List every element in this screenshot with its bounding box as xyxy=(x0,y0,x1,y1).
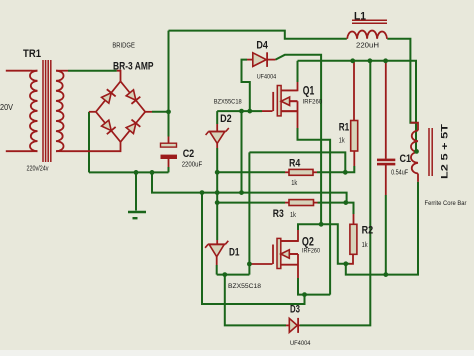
svg-text:C1: C1 xyxy=(400,153,412,165)
svg-text:C2: C2 xyxy=(183,148,195,160)
svg-text:UF4004: UF4004 xyxy=(290,340,311,347)
svg-text:0.54uF: 0.54uF xyxy=(391,170,408,177)
svg-text:D2: D2 xyxy=(220,113,232,125)
svg-text:R2: R2 xyxy=(362,225,374,237)
svg-text:220v/24v: 220v/24v xyxy=(27,165,49,172)
svg-text:D1: D1 xyxy=(229,246,240,258)
svg-text:BZX55C18: BZX55C18 xyxy=(214,99,242,106)
svg-text:220uH: 220uH xyxy=(356,43,379,50)
svg-text:Ferrite Core Bar: Ferrite Core Bar xyxy=(425,200,467,207)
svg-text:D3: D3 xyxy=(290,304,300,316)
svg-text:R4: R4 xyxy=(289,158,301,170)
svg-text:IRF260: IRF260 xyxy=(302,247,320,254)
svg-text:1k: 1k xyxy=(362,242,368,249)
svg-text:R1: R1 xyxy=(339,122,350,134)
svg-text:BZX55C18: BZX55C18 xyxy=(228,283,262,290)
svg-text:R3: R3 xyxy=(273,208,284,220)
svg-text:1k: 1k xyxy=(339,137,345,144)
svg-text:2200uF: 2200uF xyxy=(182,162,203,169)
svg-text:Q1: Q1 xyxy=(303,84,315,98)
svg-text:1k: 1k xyxy=(290,212,296,219)
svg-text:Q2: Q2 xyxy=(302,234,314,248)
svg-text:L2 5 + 5T: L2 5 + 5T xyxy=(440,123,450,179)
svg-text:UF4004: UF4004 xyxy=(257,74,277,81)
svg-text:IRF260: IRF260 xyxy=(303,98,323,105)
svg-text:BR-3 AMP: BR-3 AMP xyxy=(113,61,154,73)
svg-text:220V: 220V xyxy=(0,102,13,112)
svg-text:1k: 1k xyxy=(291,180,297,187)
svg-text:TR1: TR1 xyxy=(23,48,41,60)
svg-text:D4: D4 xyxy=(256,40,268,52)
svg-text:L1: L1 xyxy=(354,10,366,22)
svg-text:BRIDGE: BRIDGE xyxy=(112,41,134,50)
